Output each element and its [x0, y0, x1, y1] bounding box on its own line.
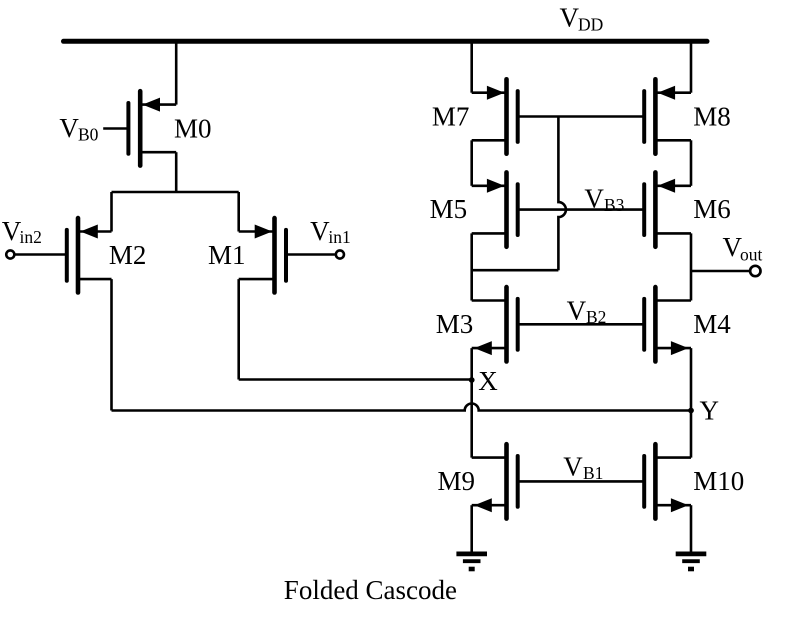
svg-text:B0: B0: [78, 125, 99, 145]
svg-text:M0: M0: [174, 114, 212, 144]
svg-text:M4: M4: [693, 309, 731, 339]
svg-text:X: X: [478, 366, 498, 396]
svg-text:in2: in2: [20, 227, 42, 247]
svg-text:M6: M6: [693, 194, 731, 224]
svg-text:in1: in1: [328, 227, 350, 247]
svg-text:out: out: [740, 244, 763, 264]
svg-text:V: V: [560, 2, 580, 32]
svg-text:M5: M5: [430, 194, 468, 224]
svg-text:V: V: [310, 216, 330, 246]
svg-text:Y: Y: [700, 396, 720, 426]
svg-text:V: V: [563, 452, 583, 482]
svg-text:Folded Cascode: Folded Cascode: [284, 575, 457, 605]
svg-text:V: V: [584, 184, 604, 214]
svg-text:M3: M3: [436, 309, 474, 339]
svg-text:B3: B3: [604, 195, 625, 215]
svg-text:M7: M7: [432, 102, 470, 132]
svg-text:V: V: [567, 296, 587, 326]
svg-text:B1: B1: [583, 463, 603, 483]
svg-text:M9: M9: [438, 466, 476, 496]
svg-text:B2: B2: [586, 307, 606, 327]
svg-text:M10: M10: [693, 466, 744, 496]
svg-text:M8: M8: [693, 102, 731, 132]
svg-text:M2: M2: [109, 240, 147, 270]
svg-text:M1: M1: [208, 240, 246, 270]
svg-text:DD: DD: [578, 15, 603, 35]
svg-text:V: V: [59, 113, 79, 143]
